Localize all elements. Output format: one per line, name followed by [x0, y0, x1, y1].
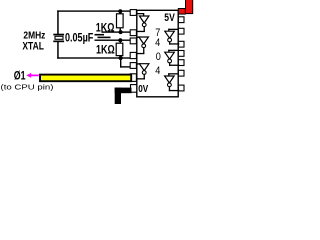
crystal Y1 top plate: [53, 34, 64, 36]
inverter C input wire: [137, 63, 141, 64]
phi1 yellow wire: [40, 75, 131, 82]
inverter E triangle: [165, 52, 175, 59]
inverter E output wire: [169, 62, 170, 66]
0V black wire horizontal: [115, 88, 132, 94]
pin 3 stub: [130, 38, 136, 44]
svg-text:4: 4: [155, 65, 160, 77]
pin 8 stub: [178, 70, 184, 76]
arrow magenta: [26, 73, 39, 78]
svg-text:(to CPU pin): (to CPU pin): [1, 82, 55, 91]
resistor R2 stem top: [120, 41, 121, 44]
5V red wire vertical: [186, 0, 193, 14]
crystal Y1 bottom plate: [53, 41, 64, 43]
pin 1 stub: [130, 10, 136, 16]
resistor R1 stem top: [120, 10, 121, 14]
wire jog horizontal to pin5: [120, 66, 131, 67]
svg-text:4: 4: [155, 37, 160, 49]
inverter D triangle: [165, 31, 175, 38]
junction dot wire1 / R1: [119, 30, 123, 34]
wire2 (INV2 input node to pin3): [95, 40, 132, 41]
wire crystal stem upper: [57, 10, 59, 34]
inverter B triangle: [139, 37, 149, 44]
wire crystal stem lower: [57, 42, 59, 59]
inverter E input wire: [168, 50, 178, 51]
pin 8b stub: [178, 85, 184, 91]
svg-text:1KΩ: 1KΩ: [96, 43, 115, 57]
inverter A input wire: [137, 13, 144, 14]
wire top (crystal top node to pin1): [57, 10, 131, 11]
svg-text:1KΩ: 1KΩ: [96, 21, 115, 35]
junction dot top wire / R1: [118, 9, 122, 13]
wire1 (INV1 output node to pin2): [102, 31, 132, 32]
inverter D input wire: [168, 29, 178, 30]
inverter A output wire: [144, 26, 145, 32]
0V black wire vertical: [115, 88, 121, 104]
wire jog vertical to pin5: [120, 58, 121, 68]
svg-text:XTAL: XTAL: [22, 40, 44, 52]
junction dot wire2 / R2: [118, 38, 122, 42]
svg-text:0: 0: [156, 51, 161, 63]
inverter B input wire: [137, 37, 141, 38]
inverter F triangle: [165, 76, 175, 83]
resistor R1 stem bottom: [120, 28, 121, 33]
pin 12 stub: [178, 28, 184, 34]
inverter F output wire: [169, 87, 170, 92]
inverter C output wire: [144, 74, 145, 80]
pin 6 stub: [130, 74, 136, 82]
junction dot bottom wire / R2: [119, 56, 123, 60]
inverter B output wire: [143, 47, 144, 54]
inverter A triangle: [139, 16, 149, 23]
pin 10 stub: [178, 51, 184, 57]
svg-text:0V: 0V: [138, 84, 148, 95]
pin 7 stub: [131, 85, 137, 93]
svg-text:Ø1: Ø1: [14, 69, 26, 83]
pin 11 stub: [178, 41, 184, 47]
IC U1 7404 package box: [137, 10, 178, 97]
resistor R1: [117, 14, 124, 28]
5V red wire pin stub (pin 14): [178, 9, 185, 15]
svg-text:0.05µF: 0.05µF: [65, 30, 94, 44]
inverter D output wire: [169, 41, 170, 44]
crystal Y1 body: [55, 36, 63, 39]
pin 13 stub: [178, 17, 184, 23]
inverter C triangle: [139, 64, 149, 71]
pin 4 stub: [130, 52, 136, 58]
wire bottom (crystal bottom to pin4): [57, 57, 131, 58]
capacitor C1 top plate: [95, 34, 105, 36]
pin 5 stub: [130, 63, 136, 69]
svg-text:5V: 5V: [164, 12, 175, 24]
resistor R2 stem bottom: [120, 56, 121, 58]
pin 9 stub: [178, 60, 184, 66]
inverter F input wire: [168, 73, 178, 74]
capacitor C1 bottom plate: [98, 37, 111, 39]
resistor R2: [116, 43, 123, 55]
pin 2 stub: [130, 30, 136, 36]
